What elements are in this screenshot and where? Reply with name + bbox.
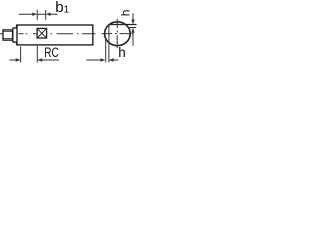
square flat symbol [37,28,47,38]
svg-text:h: h [118,10,132,17]
vertical dimension arrows right [131,13,134,46]
svg-text:h: h [118,45,126,60]
extension line from circle side [105,38,107,63]
collar [13,25,17,46]
dimension h bottom [86,58,118,61]
flat chord [109,24,137,26]
wire centerline side view [0,33,96,35]
body [17,25,93,45]
svg-text:RC: RC [44,45,59,60]
threaded stub [3,30,13,40]
centerline horizontal end view [102,33,133,35]
end view circle [105,22,131,46]
dimension b1 [19,10,58,20]
arc extension line [128,27,136,29]
dimension RC [10,46,60,63]
extension line from chord end [108,25,110,62]
centerline vertical end view [116,19,118,48]
